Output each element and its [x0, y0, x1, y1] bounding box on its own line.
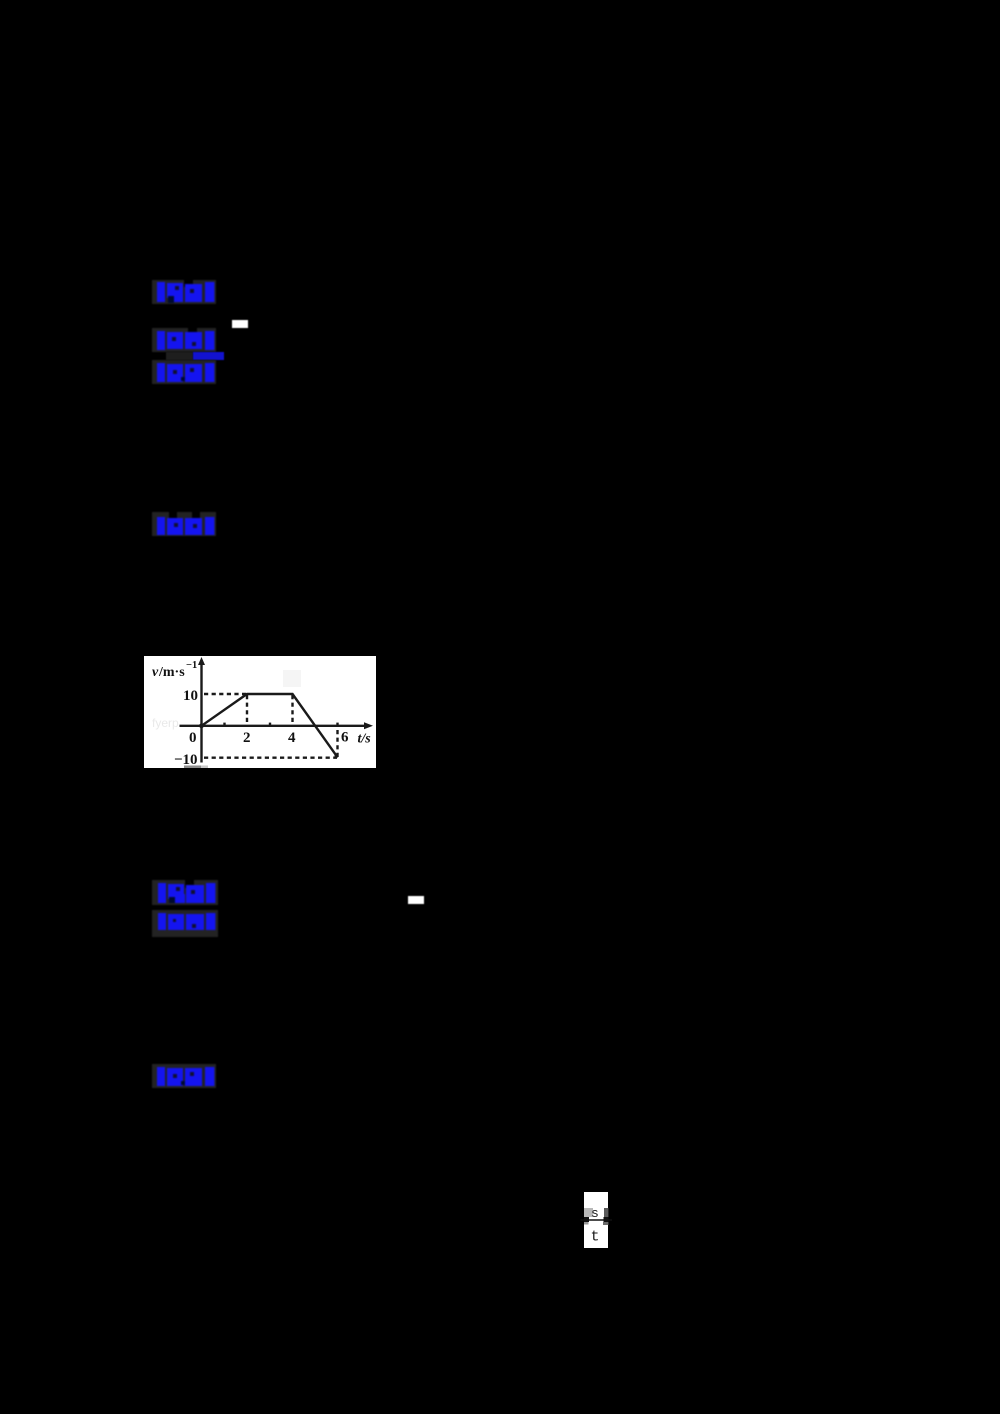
svg-text:s: s: [591, 1206, 599, 1221]
label block 【考点】 second: [152, 880, 218, 911]
v-t graph on white card: [144, 656, 376, 768]
ticks: [223, 722, 225, 725]
small white dash: [232, 320, 248, 328]
end dot: [335, 753, 339, 757]
fraction s/t on white: [584, 1192, 608, 1248]
x axis: [180, 724, 371, 726]
svg-text:10: 10: [183, 688, 198, 704]
labels: [152, 660, 371, 768]
svg-text:v: v: [152, 665, 159, 680]
svg-text:2: 2: [243, 730, 251, 746]
svg-text:fyerp: fyerp: [152, 716, 179, 730]
blue underline bar: [193, 352, 224, 360]
fraction bar: [580, 1219, 612, 1221]
svg-text:t/s: t/s: [358, 731, 372, 746]
label block 【解答】 second: [152, 1064, 216, 1093]
svg-text:4: 4: [288, 730, 296, 746]
grey strip under 分析: [166, 352, 193, 360]
small white dash second: [408, 896, 424, 905]
grey shading around s: [584, 1208, 593, 1217]
svg-text:6: 6: [341, 729, 349, 745]
label block 【点评】: [152, 512, 216, 541]
svg-text:/m·s: /m·s: [158, 665, 185, 680]
svg-text:0: 0: [189, 730, 197, 746]
arrowheads: [198, 657, 205, 665]
label block 【解答】 first: [152, 360, 216, 389]
solid polyline: [202, 694, 337, 756]
label block 【分析】 first: [152, 328, 216, 357]
y axis: [200, 660, 202, 763]
label block 【分析】 second: [152, 910, 218, 942]
label block 【考点】 first: [152, 280, 216, 309]
svg-text:t: t: [590, 1228, 599, 1245]
svg-text:−1: −1: [186, 660, 197, 671]
